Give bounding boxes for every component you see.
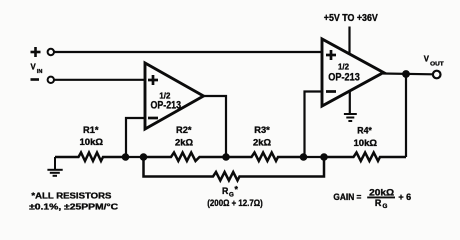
op-amp U2 body (322, 39, 384, 106)
svg-text:R: R (375, 198, 382, 208)
junction node B dot (140, 153, 148, 161)
resistor R2 (144, 153, 227, 162)
terminal VIN plus (31, 47, 55, 57)
svg-text:*ALL RESISTORS: *ALL RESISTORS (31, 190, 111, 200)
ground G2 (344, 114, 357, 121)
U1 noninverting pin + (148, 75, 158, 85)
svg-text:1/2: 1/2 (338, 62, 349, 72)
resistor R4 (324, 153, 406, 162)
junction node D dot (300, 153, 308, 161)
op-amp U1 body (145, 63, 204, 129)
svg-text:OP-213: OP-213 (151, 100, 182, 112)
svg-text:2kΩ: 2kΩ (253, 138, 271, 148)
svg-text:IN: IN (37, 69, 43, 75)
wire U2 output to VOUT (383, 72, 433, 75)
svg-text:10kΩ: 10kΩ (80, 137, 104, 147)
terminal VIN minus (31, 77, 55, 83)
junction node C dot (222, 153, 230, 161)
resistor R3 (226, 153, 304, 162)
U1 inverting pin - (148, 117, 158, 120)
U2 noninverting pin + (326, 50, 336, 60)
svg-text:(200Ω + 12.7Ω): (200Ω + 12.7Ω) (207, 198, 262, 208)
U2 inverting pin - (326, 90, 336, 93)
svg-text:*: * (235, 185, 239, 195)
ground G1 (47, 157, 62, 176)
terminal VOUT (433, 71, 441, 79)
resistor RG with branch wires (144, 157, 325, 181)
svg-text:20kΩ: 20kΩ (369, 186, 395, 197)
wire U1 inverting feedback (126, 118, 145, 157)
wire U1 output (203, 96, 226, 157)
wire node D to node E (304, 156, 325, 158)
gain formula fraction bar (367, 196, 395, 198)
junction node E dot (320, 153, 328, 161)
svg-text:GAIN =: GAIN = (333, 192, 361, 202)
svg-text:R2*: R2* (176, 125, 192, 135)
note all resistors (29, 190, 118, 211)
wire U2 inverting feedback (305, 92, 323, 158)
svg-text:R1*: R1* (83, 125, 99, 135)
svg-text:±0.1%, ±25PPM/°C: ±0.1%, ±25PPM/°C (29, 202, 118, 212)
svg-text:10kΩ: 10kΩ (354, 138, 378, 148)
svg-text:2kΩ: 2kΩ (175, 138, 193, 148)
svg-text:V: V (31, 63, 37, 72)
svg-text:OP-213: OP-213 (328, 72, 360, 84)
junction node VOUT dot (402, 70, 410, 78)
wire VOUT feedback to R4 (405, 74, 407, 157)
wire VIN- to U1 noninverting input (54, 79, 145, 81)
svg-text:+ 6: + 6 (398, 191, 411, 202)
gain formula (333, 186, 411, 210)
label RG (222, 185, 239, 199)
svg-text:R4*: R4* (357, 126, 372, 136)
svg-text:R: R (222, 186, 229, 196)
svg-text:+5V TO +36V: +5V TO +36V (324, 13, 378, 24)
svg-text:OUT: OUT (430, 61, 444, 67)
resistor R1 (55, 153, 126, 162)
wire power pin V+ (348, 27, 350, 55)
label VOUT (424, 55, 444, 68)
label VIN (31, 63, 43, 76)
svg-text:V: V (424, 55, 430, 64)
svg-text:R3*: R3* (254, 125, 270, 135)
wire VIN+ to U2 noninverting input (54, 51, 322, 53)
wire node A to node B (126, 156, 144, 158)
wire V- pin to ground (349, 91, 351, 114)
junction node A dot (122, 153, 130, 161)
svg-text:G: G (383, 203, 388, 210)
